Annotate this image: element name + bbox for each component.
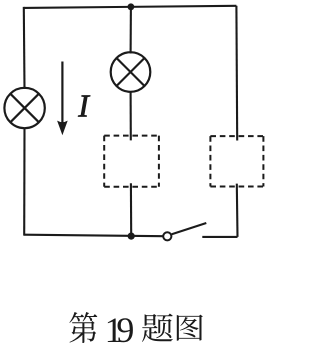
current arrow I xyxy=(57,62,68,136)
caption char 第 xyxy=(69,312,97,343)
wire middle branch mid (into dashed box) xyxy=(130,92,132,141)
box middle (dashed placeholder) xyxy=(104,136,159,187)
wire switch contact xyxy=(202,236,237,238)
node A (top junction dot) xyxy=(127,3,134,10)
switch S lever (open) xyxy=(172,223,207,234)
wire right branch lower xyxy=(236,184,239,237)
switch S pivot xyxy=(163,232,171,240)
wire top (node A to top-right corner) xyxy=(24,6,237,8)
node B (bottom junction dot) xyxy=(128,233,135,240)
wire left branch upper xyxy=(23,7,26,89)
box right (dashed placeholder) xyxy=(210,136,263,186)
caption char 图 xyxy=(177,315,203,341)
lamp L1 (left branch) xyxy=(4,88,44,128)
svg-text:I: I xyxy=(77,88,90,124)
lamp L2 (middle branch) xyxy=(111,52,151,92)
wire middle branch upper xyxy=(130,7,132,54)
wire right branch upper xyxy=(235,6,238,141)
wire left branch lower xyxy=(23,128,25,235)
caption char 题 xyxy=(142,314,173,342)
svg-text:9: 9 xyxy=(116,310,134,347)
wire bottom xyxy=(24,235,163,237)
wire middle branch lower xyxy=(130,183,132,236)
